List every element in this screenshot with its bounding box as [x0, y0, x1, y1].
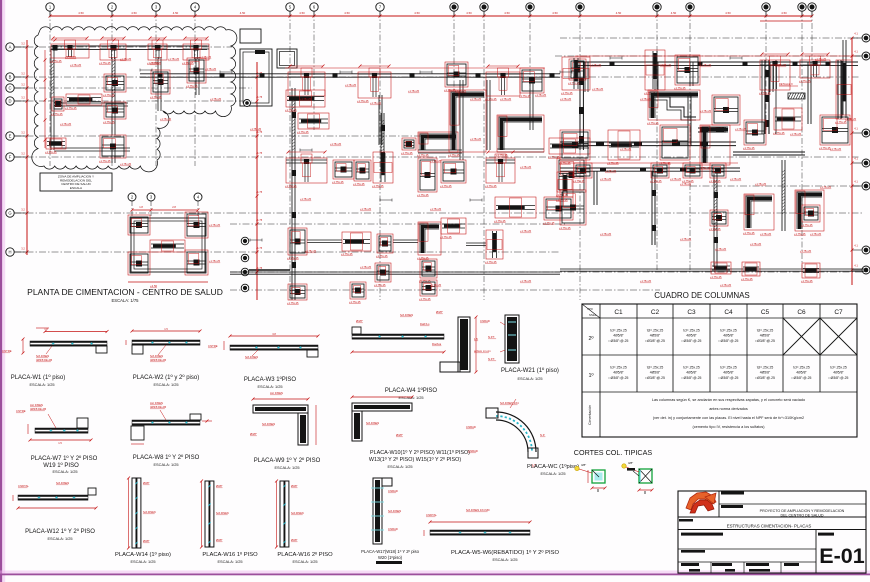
svg-text:□Ø3/8":@.25: □Ø3/8":@.25	[682, 376, 702, 380]
svg-text:+1.75x.25: +1.75x.25	[720, 284, 732, 287]
svg-text:4Ø5/8": 4Ø5/8"	[686, 334, 697, 338]
svg-text:+1.75x.25: +1.75x.25	[790, 133, 802, 136]
svg-text:Ø3/8": Ø3/8"	[143, 539, 150, 543]
svg-text:ESCALA: 1/25: ESCALA: 1/25	[398, 395, 423, 400]
svg-text:+1.75x.25: +1.75x.25	[168, 58, 180, 61]
svg-text:+1.75x.25: +1.75x.25	[120, 58, 132, 61]
svg-text:tcl=.25x.25: tcl=.25x.25	[610, 329, 627, 333]
svg-text:ESCALA: 1/25: ESCALA: 1/25	[540, 471, 565, 476]
svg-text:(cemento tipo IV, resistencia: (cemento tipo IV, resistencia a los sulf…	[692, 425, 765, 429]
svg-text:+1.75x.25: +1.75x.25	[60, 123, 72, 126]
svg-text:S/A DISEN: S/A DISEN	[262, 422, 275, 426]
svg-text:+1.75x.25: +1.75x.25	[815, 58, 827, 61]
svg-text:ESCALA: 1/25: ESCALA: 1/25	[153, 382, 178, 387]
svg-text:4.50: 4.50	[466, 11, 472, 15]
svg-text:+1.75x.25: +1.75x.25	[200, 56, 212, 59]
svg-text:+1.75x.25: +1.75x.25	[65, 106, 77, 110]
svg-text:+1.75x.25: +1.75x.25	[715, 248, 727, 251]
svg-text:4.1: 4.1	[854, 32, 858, 36]
svg-text:4.50: 4.50	[725, 11, 731, 15]
svg-text:ESCALA: 1/25: ESCALA: 1/25	[292, 559, 317, 564]
svg-text:S/A DISEN 4X4 MD: S/A DISEN 4X4 MD	[466, 508, 490, 512]
svg-text:W20 (1ºpiso): W20 (1ºpiso)	[378, 555, 403, 560]
svg-text:3.2: 3.2	[21, 42, 25, 46]
svg-text:3.2: 3.2	[21, 96, 25, 100]
svg-text:4.50: 4.50	[78, 11, 84, 15]
svg-text:tcl=.25x.25: tcl=.25x.25	[757, 366, 774, 370]
svg-text:Ø3/8": Ø3/8"	[143, 481, 150, 485]
svg-text:1.5: 1.5	[58, 441, 62, 445]
svg-text:+1.75: +1.75	[256, 219, 263, 222]
svg-text:4.50: 4.50	[173, 11, 179, 15]
svg-text:PLACA-W3 1ºPISO: PLACA-W3 1ºPISO	[244, 376, 297, 383]
svg-text:+1.75x.25: +1.75x.25	[520, 280, 532, 283]
svg-text:+1.75x.25: +1.75x.25	[419, 297, 431, 301]
svg-text:+1.75x.25: +1.75x.25	[801, 223, 813, 227]
svg-text:+1.75x.25: +1.75x.25	[417, 153, 429, 157]
svg-text:4Ø5/8": 4Ø5/8"	[833, 371, 844, 375]
svg-text:4Ø5/8": 4Ø5/8"	[723, 334, 734, 338]
svg-text:+1.75x.25: +1.75x.25	[700, 64, 712, 67]
svg-text:□Ø3/8":@.25: □Ø3/8":@.25	[645, 376, 665, 380]
svg-text:+1.75x.25: +1.75x.25	[50, 59, 62, 63]
svg-text:+1.75x.25: +1.75x.25	[760, 233, 772, 236]
svg-text:+1.75x.25: +1.75x.25	[801, 279, 813, 283]
svg-text:+1.75x.25: +1.75x.25	[830, 148, 842, 151]
svg-text:C4: C4	[724, 309, 733, 316]
svg-text:+1.75x.25: +1.75x.25	[287, 301, 299, 305]
svg-text:4Ø5/8": 4Ø5/8"	[650, 334, 661, 338]
svg-text:4Ø5/8": 4Ø5/8"	[796, 371, 807, 375]
svg-text:+1.75x.25: +1.75x.25	[650, 179, 662, 183]
svg-text:+1.75x.25: +1.75x.25	[743, 146, 755, 150]
svg-text:+1.75x.25: +1.75x.25	[376, 254, 388, 258]
svg-text:+1.75x.25: +1.75x.25	[440, 184, 452, 188]
svg-text:3.8: 3.8	[272, 332, 276, 336]
svg-text:+1.75x.25: +1.75x.25	[600, 178, 612, 181]
svg-text:+1.75x.25: +1.75x.25	[65, 56, 77, 59]
svg-text:PLACA-W21 (1º piso): PLACA-W21 (1º piso)	[501, 367, 559, 374]
svg-text:+1.75x.25: +1.75x.25	[660, 64, 672, 67]
svg-text:H: H	[8, 250, 11, 255]
svg-text:C: C	[8, 86, 11, 91]
svg-text:+1.75x.25: +1.75x.25	[205, 68, 217, 71]
svg-text:PLACA-W4 1ºPISO: PLACA-W4 1ºPISO	[385, 387, 438, 394]
svg-text:+1.75x.25: +1.75x.25	[773, 131, 785, 135]
svg-text:1.8: 1.8	[139, 205, 143, 209]
svg-text:3.2: 3.2	[21, 131, 25, 135]
svg-text:+1.75x.25: +1.75x.25	[103, 93, 115, 97]
svg-text:PLACA-W12 1º Y 2º PISO: PLACA-W12 1º Y 2º PISO	[25, 528, 95, 535]
svg-text:Las columnas según K, se ancla: Las columnas según K, se anclarán en sus…	[652, 398, 805, 402]
svg-text:S/A DISEN: S/A DISEN	[388, 509, 401, 513]
svg-text:+1.75x.25: +1.75x.25	[647, 121, 659, 125]
svg-text:PLACA-W7 1º Y 2º PISO: PLACA-W7 1º Y 2º PISO	[31, 455, 98, 462]
svg-text:Ch/RAD: Ch/RAD	[388, 527, 398, 531]
svg-text:S/A DISEN: S/A DISEN	[400, 313, 413, 317]
svg-text:tcl=.25x.25: tcl=.25x.25	[683, 329, 700, 333]
svg-text:+1.75x.25: +1.75x.25	[810, 233, 822, 236]
svg-text:+1.75x.25: +1.75x.25	[750, 243, 762, 246]
svg-text:+1.75x.25: +1.75x.25	[372, 184, 384, 188]
svg-text:Ø3/8": Ø3/8"	[436, 310, 443, 314]
svg-text:C5: C5	[761, 309, 770, 316]
svg-text:+1.75x.25: +1.75x.25	[370, 102, 382, 105]
svg-text:CORTES COL. TIPICAS: CORTES COL. TIPICAS	[574, 448, 653, 457]
svg-text:+1.75x.25: +1.75x.25	[160, 118, 172, 121]
svg-text:4Ø5/8": 4Ø5/8"	[613, 334, 624, 338]
svg-text:ESTRUCTURAS CIMENTACION- PLACA: ESTRUCTURAS CIMENTACION- PLACAS	[727, 524, 812, 529]
svg-text:tcl=.25x.25: tcl=.25x.25	[647, 329, 664, 333]
svg-text:+1.75x.25: +1.75x.25	[680, 238, 692, 241]
svg-text:+1.75x.25: +1.75x.25	[45, 150, 57, 154]
svg-text:4.1: 4.1	[854, 180, 858, 184]
svg-text:A: A	[9, 45, 12, 50]
svg-text:Ø3/8": Ø3/8"	[250, 432, 257, 436]
svg-text:tcl=.25x.25: tcl=.25x.25	[757, 329, 774, 333]
svg-text:a=bsm cm.cm: a=bsm cm.cm	[474, 349, 492, 353]
svg-text:3.2: 3.2	[21, 72, 25, 76]
svg-text:+1.75x.25: +1.75x.25	[332, 180, 344, 184]
svg-text:PLACA-W8 1º Y 2º PISO: PLACA-W8 1º Y 2º PISO	[133, 454, 200, 461]
svg-text:4.50: 4.50	[781, 11, 787, 15]
svg-text:ALI DISEN: ALI DISEN	[150, 401, 163, 405]
svg-text:+1.75x.25: +1.75x.25	[440, 235, 452, 239]
svg-text:ESCALA: 1/25: ESCALA: 1/25	[47, 536, 72, 541]
svg-text:Ø3/8": Ø3/8"	[216, 484, 223, 488]
svg-text:PLACA-W10(1º Y 2º PISO) W11(1º: PLACA-W10(1º Y 2º PISO) W11(1º PISO)	[370, 450, 470, 456]
svg-text:CUADRO DE COLUMNAS: CUADRO DE COLUMNAS	[654, 291, 750, 300]
svg-text:ESCALA: 1/25: ESCALA: 1/25	[130, 559, 155, 564]
svg-text:C1: C1	[614, 309, 623, 316]
svg-text:+1.75x.25: +1.75x.25	[353, 182, 365, 186]
svg-text:+1.75x.25: +1.75x.25	[500, 98, 512, 101]
svg-text:+1.75x.25: +1.75x.25	[209, 260, 221, 263]
svg-text:+1.75x.25: +1.75x.25	[559, 226, 571, 230]
svg-text:ESCALA: 1/25: ESCALA: 1/25	[274, 465, 299, 470]
svg-text:+1.75x.25: +1.75x.25	[485, 184, 497, 188]
svg-text:+1.75x.25: +1.75x.25	[360, 208, 372, 211]
svg-text:1º: 1º	[588, 372, 593, 379]
svg-text:□Ø3/8":@.25: □Ø3/8":@.25	[719, 339, 739, 343]
svg-text:+1.75x.25: +1.75x.25	[210, 98, 222, 101]
svg-text:Ch/RAD: Ch/RAD	[388, 489, 398, 493]
svg-text:ESCALA: 1/25: ESCALA: 1/25	[492, 557, 517, 562]
svg-text:+1.75x.25: +1.75x.25	[640, 280, 652, 283]
svg-text:4Ø3/8 DE AB: 4Ø3/8 DE AB	[150, 405, 166, 409]
svg-text:ALI DISEN: ALI DISEN	[270, 391, 283, 395]
svg-text:E: E	[9, 134, 12, 139]
svg-text:+1.75x.25: +1.75x.25	[730, 178, 742, 181]
svg-text:+1.75x.25: +1.75x.25	[775, 64, 787, 67]
svg-text:4.50: 4.50	[299, 11, 305, 15]
svg-text:+1.75x.25: +1.75x.25	[330, 143, 342, 146]
svg-text:ESCALA: 1/25: ESCALA: 1/25	[217, 559, 242, 564]
svg-text:ESCALA: 1/25: ESCALA: 1/25	[52, 469, 77, 474]
svg-text:Ch/RAD: Ch/RAD	[468, 449, 478, 453]
svg-text:Ch/DTAL: Ch/DTAL	[18, 484, 29, 488]
svg-text:Ø3/8": Ø3/8"	[291, 484, 298, 488]
svg-text:3.2: 3.2	[21, 152, 25, 156]
svg-text:S/A DISEN: S/A DISEN	[245, 355, 258, 359]
svg-text:+1.75x.25: +1.75x.25	[448, 153, 460, 157]
svg-text:ALI DISEN: ALI DISEN	[30, 403, 43, 407]
svg-text:C7: C7	[834, 309, 843, 316]
svg-text:4.1: 4.1	[854, 127, 858, 131]
svg-text:E-01: E-01	[819, 544, 864, 568]
svg-text:Ø3/8": Ø3/8"	[356, 319, 363, 323]
svg-text:tcl=.25x.25: tcl=.25x.25	[720, 366, 737, 370]
svg-text:4.50: 4.50	[414, 11, 420, 15]
svg-text:tcl=.25x.25: tcl=.25x.25	[610, 366, 627, 370]
svg-text:W13(1º Y 2º PISO) W15(1º Y 2º: W13(1º Y 2º PISO) W15(1º Y 2º PISO)	[369, 457, 461, 463]
svg-text:+1.75x.25: +1.75x.25	[300, 198, 312, 201]
svg-text:4.50: 4.50	[131, 11, 137, 15]
svg-text:Ch/TRE: Ch/TRE	[2, 349, 12, 353]
svg-text:□Ø3/8":@.25: □Ø3/8":@.25	[792, 376, 812, 380]
svg-text:+1.75x.25: +1.75x.25	[519, 94, 531, 98]
svg-text:+1.75x.25: +1.75x.25	[341, 252, 353, 256]
svg-text:4Ø5/8": 4Ø5/8"	[723, 371, 734, 375]
svg-text:+1.75x.25: +1.75x.25	[70, 64, 82, 67]
svg-text:+1.75x.25: +1.75x.25	[680, 183, 692, 186]
svg-text:+1.75x.25: +1.75x.25	[741, 277, 753, 281]
svg-text:2.8: 2.8	[172, 205, 176, 209]
svg-text:+1.75x.25: +1.75x.25	[401, 151, 413, 155]
svg-text:4Ø5/8": 4Ø5/8"	[613, 371, 624, 375]
svg-text:1.8: 1.8	[44, 327, 48, 331]
svg-text:S/A DISEN: S/A DISEN	[143, 510, 156, 514]
svg-text:tcl=.25x.25: tcl=.25x.25	[647, 366, 664, 370]
svg-text:□Ø3/8":@.25: □Ø3/8":@.25	[645, 339, 665, 343]
svg-text:+1.75x.25: +1.75x.25	[99, 159, 111, 163]
svg-text:1.5: 1.5	[164, 327, 168, 331]
svg-text:TIPO: TIPO	[587, 308, 593, 311]
svg-text:S/A DISEN: S/A DISEN	[216, 511, 229, 515]
svg-text:+1.75x.25: +1.75x.25	[408, 90, 420, 93]
svg-text:tcl=.25x.25: tcl=.25x.25	[683, 366, 700, 370]
svg-text:PLACA-W14 (1º piso): PLACA-W14 (1º piso)	[115, 551, 171, 558]
svg-text:+1.75x.25: +1.75x.25	[150, 62, 162, 65]
svg-text:S/A DISEN: S/A DISEN	[36, 354, 49, 358]
svg-text:+1.75x.25: +1.75x.25	[300, 98, 312, 101]
svg-text:+1.75x.25: +1.75x.25	[535, 94, 547, 97]
svg-text:+1.75x.25: +1.75x.25	[670, 178, 682, 181]
svg-text:+1.75x.25: +1.75x.25	[620, 148, 632, 151]
svg-text:Ch/DTAL: Ch/DTAL	[426, 513, 437, 517]
svg-text:+1.75x.25: +1.75x.25	[794, 232, 806, 236]
svg-text:4.1: 4.1	[854, 244, 858, 248]
svg-text:2º: 2º	[588, 335, 593, 342]
svg-text:C6: C6	[797, 309, 806, 316]
svg-text:PLACA-W16 2º PISO: PLACA-W16 2º PISO	[277, 551, 333, 558]
svg-text:F: F	[9, 155, 12, 160]
svg-text:+1.75x.25: +1.75x.25	[520, 230, 532, 233]
svg-text:+1.75x.25: +1.75x.25	[285, 184, 297, 188]
svg-text:3/8": 3/8"	[581, 463, 586, 467]
svg-text:Ø3/8": Ø3/8"	[216, 538, 223, 542]
svg-text:□Ø3/8":@.25: □Ø3/8":@.25	[609, 376, 629, 380]
svg-text:+1.75x.25: +1.75x.25	[150, 95, 162, 99]
svg-text:+1.75x.25: +1.75x.25	[430, 208, 442, 211]
svg-text:+1.75x.25: +1.75x.25	[287, 256, 299, 260]
svg-text:+1.75x.25: +1.75x.25	[640, 98, 652, 101]
svg-text:4Ø3/8 DE AB: 4Ø3/8 DE AB	[36, 358, 52, 362]
svg-text:4.50: 4.50	[504, 11, 510, 15]
svg-text:+1.75x.25: +1.75x.25	[417, 193, 429, 197]
svg-text:B: B	[9, 75, 12, 80]
svg-text:+1.75x.25: +1.75x.25	[470, 138, 482, 141]
svg-text:PLACA-W16 1º PISO: PLACA-W16 1º PISO	[202, 551, 258, 558]
svg-text:Fla/Ava: Fla/Ava	[432, 342, 442, 346]
svg-text:+1.75: +1.75	[256, 96, 263, 99]
svg-text:S/A DISEN: S/A DISEN	[150, 354, 163, 358]
svg-text:4Ø5/8": 4Ø5/8"	[650, 371, 661, 375]
svg-text:Ø3/8": Ø3/8"	[291, 538, 298, 542]
svg-text:+1.75x.25: +1.75x.25	[357, 99, 369, 103]
svg-text:3.2: 3.2	[21, 247, 25, 251]
svg-text:+1.75x.25: +1.75x.25	[51, 112, 63, 116]
svg-text:PLACA-W1 (1º piso): PLACA-W1 (1º piso)	[11, 374, 66, 381]
svg-text:+1.75x.25: +1.75x.25	[345, 84, 357, 87]
svg-text:+1.75x.25: +1.75x.25	[710, 275, 722, 279]
svg-text:4.50: 4.50	[671, 11, 677, 15]
svg-text:+1.75x.25: +1.75x.25	[699, 166, 711, 170]
svg-text:□Ø3/8":@.25: □Ø3/8":@.25	[609, 339, 629, 343]
svg-text:+1.75x.25: +1.75x.25	[709, 227, 721, 231]
svg-text:+1.75x.25: +1.75x.25	[799, 79, 811, 83]
svg-text:□Ø3/8":@.25: □Ø3/8":@.25	[682, 339, 702, 343]
svg-text:tcl=.25x.25: tcl=.25x.25	[830, 366, 847, 370]
svg-text:PLACA-W2 (1º y 2º piso): PLACA-W2 (1º y 2º piso)	[133, 374, 199, 381]
svg-text:+1.75x.25: +1.75x.25	[520, 166, 532, 169]
svg-text:W19 1º PISO: W19 1º PISO	[43, 462, 79, 469]
svg-text:antes norma derivados: antes norma derivados	[709, 407, 748, 411]
svg-text:PLANTA DE CIMENTACION - CENTRO: PLANTA DE CIMENTACION - CENTRO DE SALUD	[27, 287, 223, 297]
svg-text:ESCALA: 1/25: ESCALA: 1/25	[29, 382, 54, 387]
svg-text:(ver det. in) y conjuntamente: (ver det. in) y conjuntamente con las pl…	[653, 416, 804, 420]
svg-text:Ch/TRE: Ch/TRE	[208, 344, 218, 348]
svg-text:+1.75x.25: +1.75x.25	[103, 120, 115, 124]
svg-text:+1.75x.25: +1.75x.25	[543, 221, 555, 225]
svg-text:+1.75x.25: +1.75x.25	[209, 224, 221, 227]
svg-text:+1.75x.25: +1.75x.25	[590, 64, 602, 67]
svg-text:+1.75x.25: +1.75x.25	[349, 300, 361, 304]
svg-text:Da/Fb.s: Da/Fb.s	[420, 322, 430, 326]
svg-text:+1.75x.25: +1.75x.25	[700, 110, 712, 113]
svg-text:C3: C3	[687, 309, 696, 316]
svg-text:+1.75x.25: +1.75x.25	[374, 283, 386, 287]
svg-text:+1.75: +1.75	[256, 191, 263, 194]
svg-text:+1.75x.25: +1.75x.25	[674, 86, 686, 90]
svg-text:Cimentación: Cimentación	[588, 405, 592, 425]
svg-text:Ch/TRE: Ch/TRE	[16, 409, 26, 413]
svg-text:DEL CENTRO DE SALUD: DEL CENTRO DE SALUD	[780, 514, 823, 518]
svg-text:4Ø5/8": 4Ø5/8"	[686, 371, 697, 375]
svg-text:+1.75: +1.75	[256, 267, 263, 270]
svg-text:+1.75x.25: +1.75x.25	[285, 108, 297, 112]
svg-text:ESCALA: 1/25: ESCALA: 1/25	[153, 462, 178, 467]
svg-text:+1.75x.25: +1.75x.25	[605, 170, 617, 173]
svg-text:ESCALA: ESCALA	[70, 186, 83, 190]
svg-text:3.2: 3.2	[21, 208, 25, 212]
svg-text:ESCALA: 1/25: ESCALA: 1/25	[387, 464, 412, 469]
svg-text:C2: C2	[651, 309, 660, 316]
svg-text:+1.75x.25: +1.75x.25	[759, 91, 771, 95]
svg-text:PLACA-W5-W6(REBATIDO) 1º Y 2º: PLACA-W5-W6(REBATIDO) 1º Y 2º PISO	[451, 549, 559, 556]
svg-text:N.P.T.: N.P.T.	[488, 335, 495, 339]
svg-text:PLACA-W9 1º Y 2º PISO: PLACA-W9 1º Y 2º PISO	[254, 457, 321, 464]
svg-text:+1.75x.25: +1.75x.25	[845, 118, 857, 121]
svg-text:+1.75: +1.75	[256, 152, 263, 155]
svg-text:Ch/RAD: Ch/RAD	[480, 319, 490, 323]
svg-text:+1.75x.25: +1.75x.25	[561, 91, 573, 95]
svg-text:DETALLE X: DETALLE X	[779, 82, 793, 86]
svg-text:PROYECTO DE AMPLIACION Y REMOD: PROYECTO DE AMPLIACION Y REMODELACION	[760, 509, 845, 513]
svg-text:+1.75x.25: +1.75x.25	[592, 88, 604, 91]
svg-text:+1.75x.25: +1.75x.25	[120, 163, 132, 166]
svg-text:Ø3/8": Ø3/8"	[396, 433, 403, 437]
svg-text:+1.75x.25: +1.75x.25	[186, 84, 198, 88]
svg-text:+1.75: +1.75	[256, 247, 263, 250]
svg-text:PLACA-WC (1ºpiso): PLACA-WC (1ºpiso)	[527, 463, 579, 470]
svg-text:+1.75x.25: +1.75x.25	[755, 183, 767, 186]
svg-text:4.50: 4.50	[344, 11, 350, 15]
svg-text:4Ø3/8 DE AB: 4Ø3/8 DE AB	[30, 407, 46, 411]
svg-text:NIVEL: NIVEL	[589, 314, 597, 317]
svg-text:4.1: 4.1	[854, 157, 858, 161]
svg-text:4.50: 4.50	[616, 11, 622, 15]
svg-text:4.1: 4.1	[854, 50, 858, 54]
svg-text:G: G	[8, 211, 11, 216]
svg-text:□Ø3/8":@.25: □Ø3/8":@.25	[829, 376, 849, 380]
svg-text:4Ø3/8 DE AB: 4Ø3/8 DE AB	[150, 358, 166, 362]
svg-text:+1.75x.25: +1.75x.25	[99, 61, 111, 65]
svg-text:+1.75x.25: +1.75x.25	[800, 250, 812, 253]
svg-text:D: D	[8, 99, 11, 104]
svg-text:+1.75x.25: +1.75x.25	[573, 179, 585, 183]
svg-text:S/A DISEN: S/A DISEN	[56, 481, 69, 485]
svg-text:tcl=.25x.25: tcl=.25x.25	[720, 329, 737, 333]
svg-text:+1.75x.25: +1.75x.25	[820, 186, 832, 189]
svg-text:N.P.T.: N.P.T.	[488, 357, 495, 361]
svg-text:□Ø3/8":@.25: □Ø3/8":@.25	[755, 339, 775, 343]
svg-text:+1.75: +1.75	[256, 131, 263, 134]
svg-text:tcl=.25x.25: tcl=.25x.25	[793, 366, 810, 370]
svg-text:+1.75x.25: +1.75x.25	[297, 130, 309, 134]
svg-text:+1.75x.25: +1.75x.25	[735, 128, 747, 131]
svg-text:4.50: 4.50	[552, 11, 558, 15]
svg-text:ESCALA: 1/25: ESCALA: 1/25	[257, 384, 282, 389]
svg-text:+1.75x.25: +1.75x.25	[250, 128, 262, 131]
svg-text:1.5: 1.5	[474, 337, 478, 341]
svg-text:S/A DISEN 4X4: S/A DISEN 4X4	[500, 401, 519, 405]
svg-text:□Ø3/8":@.25: □Ø3/8":@.25	[719, 376, 739, 380]
svg-text:3.2: 3.2	[21, 83, 25, 87]
svg-text:+1.75x.25: +1.75x.25	[430, 160, 442, 163]
svg-text:4.50: 4.50	[240, 11, 246, 15]
svg-text:4Ø5/8": 4Ø5/8"	[760, 334, 771, 338]
svg-text:+1.75x.25: +1.75x.25	[494, 219, 506, 223]
svg-text:+1.75x.25: +1.75x.25	[560, 98, 572, 101]
svg-text:+1.75x.25: +1.75x.25	[430, 284, 442, 287]
svg-text:+1.75x.25: +1.75x.25	[360, 266, 372, 269]
svg-text:+1.75x.25: +1.75x.25	[305, 250, 317, 253]
svg-text:ESCALA: 1/25: ESCALA: 1/25	[517, 376, 542, 381]
svg-text:+1.75x.25: +1.75x.25	[485, 97, 497, 101]
svg-text:+1.75x.25: +1.75x.25	[600, 233, 612, 236]
svg-text:3/8": 3/8"	[628, 461, 633, 465]
